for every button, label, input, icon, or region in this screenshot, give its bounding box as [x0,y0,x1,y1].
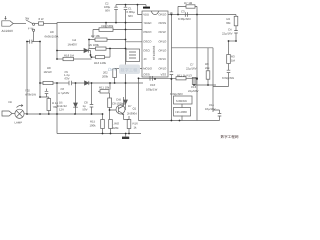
svg-text:数字工程网: 数字工程网 [221,134,239,139]
svg-text:100μ/1W: 100μ/1W [146,88,158,92]
resistor R8 [43,81,53,84]
svg-text:10μ/16V: 10μ/16V [205,107,216,111]
switch contact lower [33,29,35,31]
small cap C9 [45,89,49,98]
bottom box rail y120.5 [139,108,220,121]
IC pin labels left [143,13,167,77]
svg-text:OSSI: OSSI [143,73,150,77]
box module 0.02u [174,96,193,104]
resistor R3 [228,41,230,55]
left vertical x40 [39,42,41,82]
wire rail links [56,83,58,134]
capacitor C7 [170,48,174,79]
svg-text:50V: 50V [105,9,110,13]
ground [125,134,127,137]
resistor R14 70k [48,97,50,99]
lamp arrow [17,105,24,108]
capacitor C1 [124,7,128,9]
main top wire to IC TRIAC [57,22,142,25]
svg-text:22μ/50V: 22μ/50V [188,89,199,93]
capacitor C11 [213,110,221,116]
wire y14.5 to right column [197,14,236,16]
svg-text:VDD: VDD [143,13,149,17]
AC plug P1 [2,21,13,26]
diode D4 row [57,50,84,52]
svg-text:16: 16 [170,11,174,15]
svg-text:OSCI: OSCI [143,48,150,52]
resistor R11 10k [109,83,111,90]
svg-text:JRO: JRO [114,122,120,126]
resistor R2b 33k [235,15,237,17]
svg-text:D8: D8 [50,30,54,34]
zener D7 [125,83,127,100]
svg-text:HT46R065: HT46R065 [152,45,156,60]
svg-text:50V: 50V [83,108,88,112]
svg-text:OSCO: OSCO [143,30,152,34]
svg-text:Q1: Q1 [133,107,137,111]
capacitor C4 [234,31,238,41]
svg-text:8 W: 8 W [39,17,44,21]
resonator B1 box [126,49,140,62]
svg-text:C8-1025: C8-1025 [112,102,123,106]
capacitor C8 [90,83,94,114]
top bus y4.6 [116,4,146,6]
junction to R16 [79,58,92,60]
resistor R15 100k [102,114,104,120]
svg-text:R13: R13 [187,74,193,78]
svg-text:D4: D4 [73,38,77,42]
resistor R7 1M [186,5,195,8]
capacitor C3 [185,12,187,17]
svg-text:R2 10k: R2 10k [91,34,100,38]
svg-text:R16 120k: R16 120k [94,61,107,65]
node row y41 [229,40,237,42]
svg-text:TRIAC: TRIAC [143,21,151,25]
lamp LAMP [12,113,15,115]
svg-text:R5 100k: R5 100k [89,43,100,47]
vertical x57 [56,23,58,59]
svg-text:OP1O: OP1O [159,66,168,70]
svg-text:AC220V: AC220V [2,29,14,33]
corner from x40 to R14 [40,83,49,97]
svg-text:33k: 33k [226,21,231,25]
svg-text:OP2O: OP2O [159,13,168,17]
resistor R17 upper [108,98,112,108]
svg-text:22k: 22k [205,66,210,70]
resistor R9 22k [207,48,209,71]
resistor R2 10k [95,38,107,41]
touch plate [145,5,147,7]
svg-text:470k/1W: 470k/1W [25,93,36,97]
resistor R13 [192,78,196,85]
svg-text:JC: JC [143,57,146,61]
capacitor C10 series [150,76,153,81]
watermark center [108,65,140,75]
svg-text:HC-2008: HC-2008 [176,110,188,114]
svg-text:4.7μ/50V: 4.7μ/50V [58,91,69,95]
svg-text:6A05/250A: 6A05/250A [45,35,59,39]
touch plate bar [143,7,150,9]
svg-text:3W: 3W [25,17,30,21]
svg-text:LAMP: LAMP [15,121,23,125]
box HC-2008 [174,108,191,117]
branch up to R7 [178,6,186,14]
IC notch [152,11,159,15]
svg-text:C3: C3 [181,10,185,14]
wire x137.5 to VDD [138,5,143,15]
svg-text:22μ/16V: 22μ/16V [186,67,197,71]
capacitor row y41.5 [27,40,40,44]
svg-text:R7 1M: R7 1M [184,1,193,5]
series diode D2 [85,81,89,85]
svg-text:R11 10k: R11 10k [99,85,110,89]
wire module down [181,104,183,108]
svg-text:1M: 1M [231,59,236,63]
zener D5 [75,83,77,103]
resistor R16 120k [96,56,105,59]
svg-text:R8: R8 [47,66,51,70]
left vertical x27 [26,42,28,115]
svg-text:DnY: DnY [108,67,118,72]
svg-text:63V: 63V [65,77,70,81]
diode D6 to MODO [115,68,142,70]
svg-text:200k: 200k [102,75,109,79]
svg-text:OP1O: OP1O [159,40,168,44]
resistor R10 1k [127,120,131,129]
lamp rail y114 [24,113,102,115]
switch SW blade [26,20,33,24]
wire OP2O right with pin16 [168,14,197,16]
svg-text:0.02μ/50V: 0.02μ/50V [170,92,183,96]
svg-text:R11 1k: R11 1k [177,74,186,78]
IC U1 box [142,11,168,77]
resistor R18 1M [57,58,63,60]
capacitor C2 [114,5,118,23]
svg-text:18/1W: 18/1W [44,70,52,74]
fuse D8 on top wire [35,23,39,25]
svg-text:6.8Ω/5W: 6.8Ω/5W [176,99,187,103]
svg-text:R18 1M: R18 1M [64,54,74,58]
svg-text:22μ/16V: 22μ/16V [222,32,233,36]
svg-text:数字工程: 数字工程 [121,68,139,73]
switch contact upper [33,23,35,25]
svg-text:70k: 70k [53,105,58,109]
capacitor C12 [213,70,230,86]
wire OSC y41.8 [126,41,143,43]
svg-text:OP19: OP19 [159,57,167,61]
bottom rail left y132.5 [57,133,141,135]
wire switch lower down [33,31,35,41]
svg-text:0.02μ/5W: 0.02μ/5W [222,76,234,80]
wire plug to switch [13,23,26,25]
series capacitor C5 [69,81,85,86]
vertical x138.5 [138,78,140,108]
long vertical x125.5 [125,5,127,83]
svg-text:OP1P: OP1P [159,30,167,34]
rail y83 with R8 [40,81,43,83]
row y85 [194,79,216,85]
svg-text:VSS: VSS [161,73,167,77]
vertical x89 R2-R5 [88,40,90,49]
vertical lamp to bus [101,113,103,115]
svg-text:C10: C10 [150,83,156,87]
svg-text:1N4007: 1N4007 [68,43,78,47]
svg-text:VR1 500k: VR1 500k [101,24,114,28]
wire OSC y29.5 [126,29,143,31]
svg-text:1k: 1k [134,126,138,130]
svg-text:OP2N: OP2N [159,21,167,25]
right vertical x197 [196,15,198,121]
svg-text:D7: D7 [128,104,132,108]
svg-text:OP1O: OP1O [159,48,168,52]
svg-text:220k: 220k [113,126,120,130]
svg-text:12V: 12V [59,108,64,112]
svg-text:50V: 50V [128,14,133,18]
resistor R11 on row y78.3 [139,77,177,79]
transistor Q1 2N3904 [116,105,125,114]
svg-text:F W: F W [28,27,33,31]
svg-text:MODO: MODO [143,66,153,70]
svg-text:100k: 100k [90,124,97,128]
svg-text:2N3904: 2N3904 [127,112,137,116]
potentiometer VR1 500k [99,28,113,32]
svg-text:0.30μ/50V: 0.30μ/50V [178,17,191,21]
wire C7 node to bottom [170,79,172,121]
inner box output net [171,15,213,113]
resistor R5 100k [96,47,107,50]
svg-text:XD: XD [8,100,12,104]
resistor R17 [109,120,113,129]
lamp connector XD [2,111,12,116]
svg-text:OSCO: OSCO [143,40,152,44]
